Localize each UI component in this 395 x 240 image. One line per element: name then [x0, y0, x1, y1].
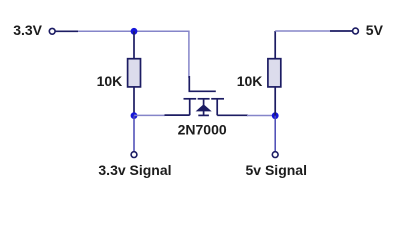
resistor R2 10K body	[268, 59, 281, 87]
label 2N7000	[178, 121, 227, 137]
resistor R2 bottom pin	[274, 87, 276, 116]
svg-text:5V: 5V	[366, 22, 384, 38]
svg-text:10K: 10K	[97, 73, 123, 89]
svg-text:3.3v Signal: 3.3v Signal	[98, 162, 171, 178]
svg-text:2N7000: 2N7000	[178, 121, 227, 137]
wire drain net	[134, 114, 165, 116]
resistor R1 10K body	[128, 59, 141, 87]
port terminal 5V	[330, 28, 358, 34]
svg-text:10K: 10K	[237, 73, 263, 89]
wire 3.3V rail to gate riser	[78, 31, 189, 78]
wire 5V rail	[275, 30, 330, 32]
port terminal 3.3v Signal	[131, 152, 137, 158]
port terminal 5v Signal	[272, 152, 278, 158]
junction dot node 3.3V/R1	[131, 28, 138, 35]
port terminal 3.3V	[49, 28, 78, 34]
svg-text:5v Signal: 5v Signal	[246, 162, 307, 178]
svg-text:3.3V: 3.3V	[13, 22, 42, 38]
resistor R1 bottom pin	[133, 87, 135, 116]
label 3.3V	[13, 22, 42, 38]
label 10K (R1)	[97, 73, 123, 89]
label 3.3v Signal	[98, 162, 171, 178]
resistor R1 top pin	[133, 31, 135, 59]
junction dot node 5v signal	[272, 112, 279, 119]
wire source net	[247, 115, 275, 117]
transistor Q1 2N7000	[165, 76, 249, 115]
junction dot node 3.3v signal	[131, 112, 138, 119]
label 5V	[366, 22, 384, 38]
label 5v Signal	[246, 162, 307, 178]
wire 3.3v signal drop	[133, 116, 135, 152]
label 10K (R2)	[237, 73, 263, 89]
resistor R2 top pin	[274, 31, 276, 59]
wire 5v signal drop	[274, 116, 276, 152]
